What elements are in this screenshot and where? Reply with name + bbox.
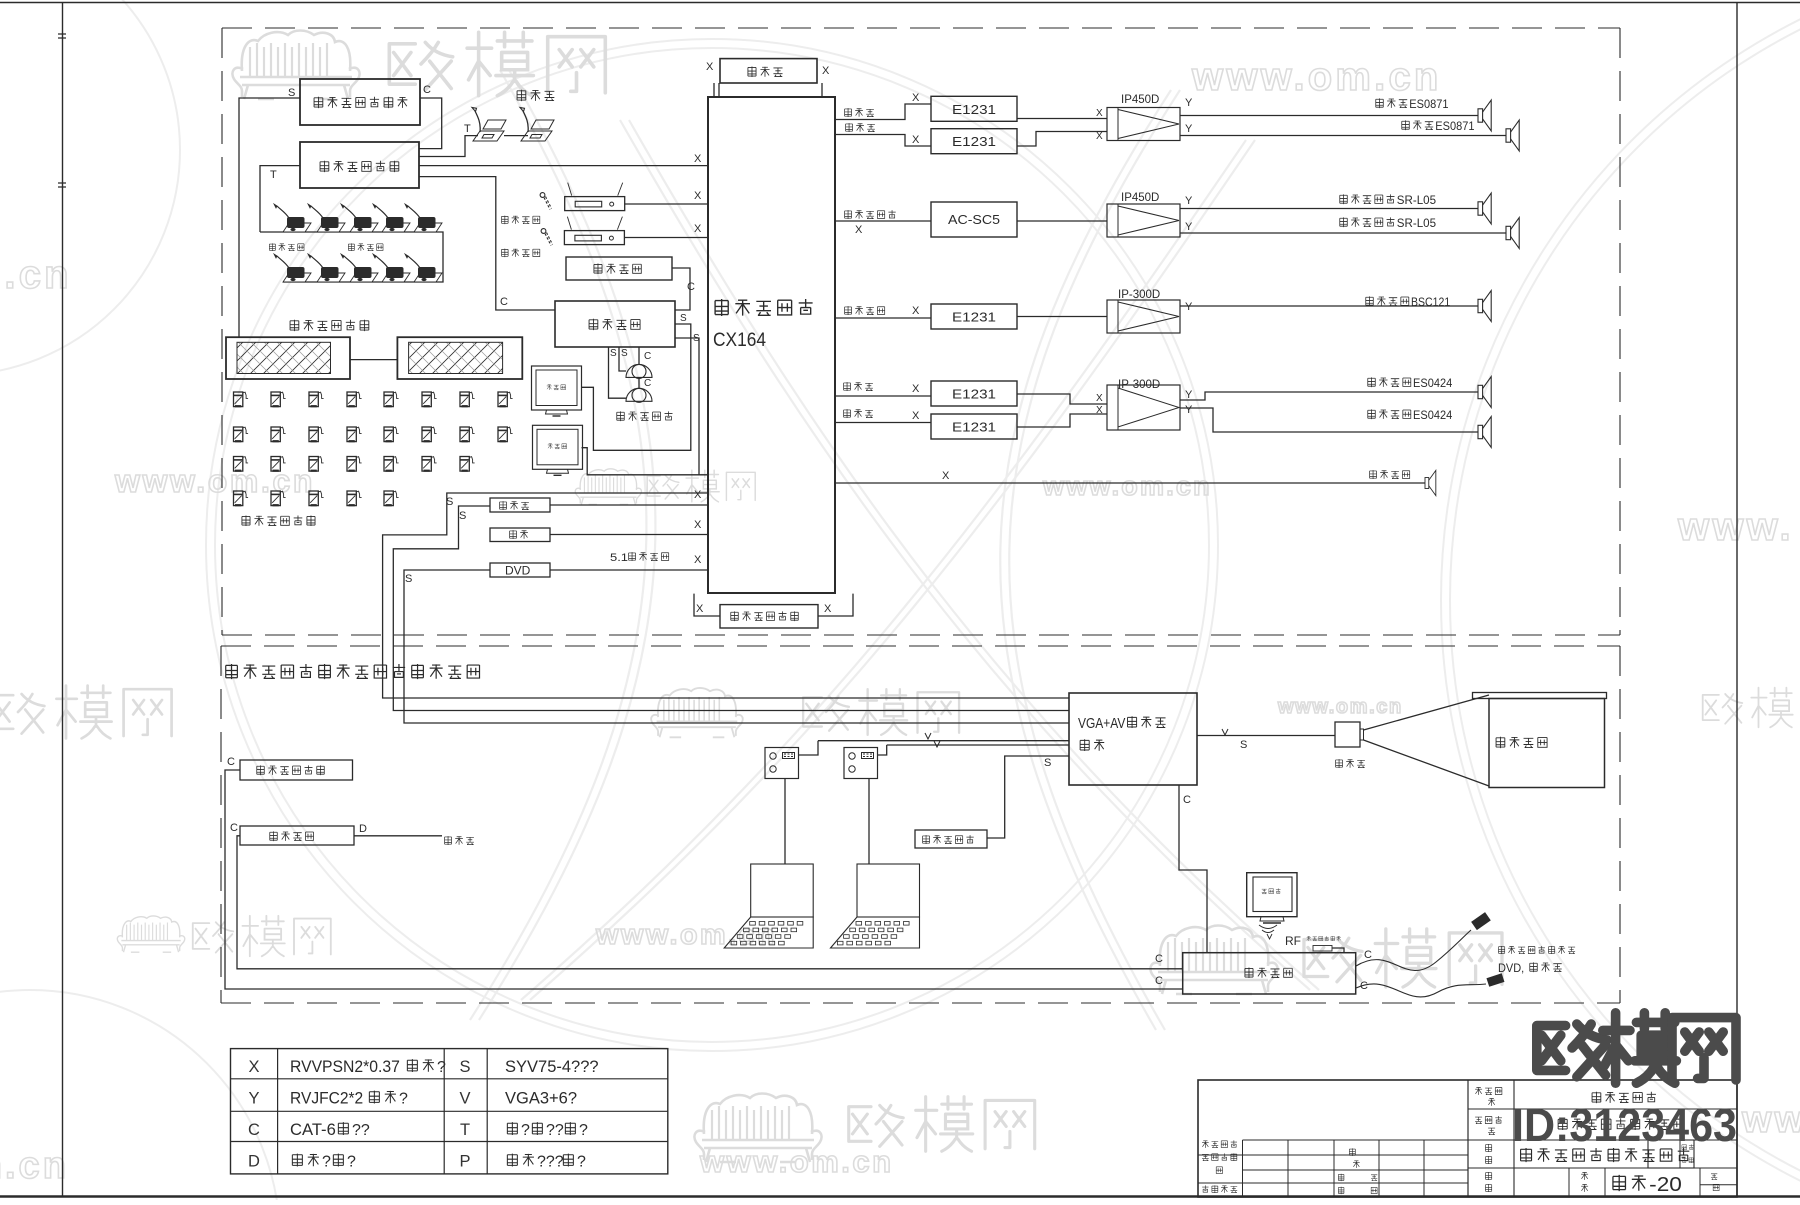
svg-text:www.: www. — [1677, 505, 1794, 549]
svg-text:ES0871: ES0871 — [1435, 119, 1474, 133]
svg-text:E1231: E1231 — [952, 387, 996, 402]
svg-text:IP450D: IP450D — [1121, 94, 1159, 106]
svg-text:X: X — [694, 223, 702, 235]
svg-text:C: C — [644, 378, 651, 389]
svg-text:AC-SC5: AC-SC5 — [948, 212, 1000, 227]
svg-text:X: X — [912, 92, 920, 104]
svg-text:S: S — [1240, 739, 1247, 751]
svg-text:5.1: 5.1 — [610, 552, 628, 564]
svg-text:Y: Y — [248, 1090, 259, 1108]
svg-text:ES0871: ES0871 — [1409, 97, 1448, 111]
svg-text:X: X — [1096, 405, 1103, 416]
svg-text:C: C — [227, 756, 235, 768]
svg-text:ID:3123463: ID:3123463 — [1512, 1099, 1737, 1151]
svg-text:X: X — [694, 554, 702, 566]
svg-text:S: S — [288, 87, 295, 99]
svg-text:?: ? — [521, 1122, 530, 1139]
svg-text:om.cn: om.cn — [0, 253, 72, 297]
svg-text:C: C — [1364, 949, 1372, 961]
svg-text:C: C — [687, 281, 695, 293]
svg-text:C: C — [1360, 980, 1368, 992]
svg-text:CAT-6: CAT-6 — [290, 1120, 336, 1139]
svg-text:D: D — [359, 823, 367, 835]
svg-text:Y: Y — [1185, 221, 1193, 233]
svg-text:Y: Y — [1185, 404, 1193, 416]
svg-text:C: C — [248, 1121, 260, 1139]
svg-text:www.om.cn: www.om.cn — [1042, 471, 1212, 501]
svg-text:IP-300D: IP-300D — [1118, 379, 1160, 391]
svg-text:T: T — [464, 123, 471, 135]
svg-text:X: X — [706, 61, 714, 73]
svg-text:RVJFC2*2: RVJFC2*2 — [290, 1089, 363, 1108]
svg-text:DVD: DVD — [505, 564, 531, 578]
svg-text:SR-L05: SR-L05 — [1397, 216, 1437, 230]
svg-text:S: S — [459, 510, 466, 522]
svg-text:X: X — [696, 603, 704, 615]
svg-text:Y: Y — [1185, 301, 1193, 313]
svg-text:E1231: E1231 — [952, 310, 996, 325]
svg-text:www.om.cn: www.om.cn — [114, 463, 315, 499]
svg-text:om.cn: om.cn — [0, 1145, 69, 1187]
svg-text:?: ? — [347, 1154, 356, 1171]
svg-text:X: X — [912, 134, 920, 146]
svg-text:S: S — [610, 348, 617, 359]
svg-text:???: ??? — [537, 1154, 564, 1171]
svg-text:X: X — [694, 489, 702, 501]
svg-text:IP450D: IP450D — [1121, 192, 1159, 204]
svg-text:ES0424: ES0424 — [1413, 408, 1452, 422]
svg-text:X: X — [694, 190, 702, 202]
svg-text:C: C — [230, 822, 238, 834]
svg-text:S: S — [621, 348, 628, 359]
svg-text:?: ? — [399, 1091, 408, 1108]
svg-text:www.om.cn: www.om.cn — [699, 1144, 894, 1179]
svg-text:SYV75-4???: SYV75-4??? — [505, 1058, 599, 1076]
svg-text:S: S — [405, 573, 412, 585]
svg-text:CX164: CX164 — [713, 330, 766, 351]
svg-text:S: S — [459, 1058, 470, 1076]
svg-text:RVVPSN2*0.37: RVVPSN2*0.37 — [290, 1057, 400, 1076]
svg-text:E1231: E1231 — [952, 102, 996, 117]
svg-text:X: X — [1096, 131, 1103, 142]
svg-text:www.om.cn: www.om.cn — [1277, 696, 1403, 718]
svg-text:X: X — [694, 153, 702, 165]
svg-text:www.om.cn: www.om.cn — [1191, 55, 1442, 99]
svg-text:RF: RF — [1285, 934, 1301, 948]
svg-text:D: D — [248, 1153, 260, 1171]
svg-text:Y: Y — [1185, 97, 1193, 109]
svg-text:X: X — [1096, 393, 1103, 404]
svg-text:?: ? — [322, 1154, 331, 1171]
svg-text:VGA+AV: VGA+AV — [1078, 716, 1126, 732]
svg-text:??: ?? — [546, 1122, 564, 1139]
svg-text:P: P — [459, 1153, 470, 1171]
svg-text:Y: Y — [1185, 195, 1193, 207]
svg-text:E1231: E1231 — [952, 420, 996, 435]
svg-text:X: X — [1096, 108, 1103, 119]
svg-text:Y: Y — [1185, 389, 1193, 401]
svg-text:??: ?? — [352, 1122, 370, 1139]
svg-text:X: X — [694, 519, 702, 531]
svg-text:C: C — [1155, 953, 1163, 965]
svg-text:BSC121: BSC121 — [1411, 295, 1450, 309]
svg-text:V: V — [459, 1090, 470, 1108]
svg-text:X: X — [912, 410, 920, 422]
svg-text:-20: -20 — [1649, 1174, 1682, 1196]
svg-text:C: C — [644, 351, 651, 362]
svg-text:Y: Y — [1185, 123, 1193, 135]
svg-text:C: C — [423, 84, 431, 96]
svg-text:X: X — [248, 1058, 259, 1076]
svg-text:C: C — [1183, 794, 1191, 806]
svg-text:VGA3+6?: VGA3+6? — [505, 1090, 577, 1108]
svg-text:SR-L05: SR-L05 — [1397, 193, 1437, 207]
svg-text:?: ? — [437, 1059, 446, 1076]
svg-text:X: X — [942, 470, 950, 482]
svg-text:X: X — [824, 603, 832, 615]
svg-text:C: C — [500, 296, 508, 308]
svg-text:T: T — [460, 1121, 470, 1139]
svg-text:www.: www. — [1741, 1099, 1800, 1141]
svg-text:DVD,: DVD, — [1498, 961, 1524, 975]
svg-text:ES0424: ES0424 — [1413, 376, 1452, 390]
svg-text:X: X — [912, 305, 920, 317]
svg-text:X: X — [912, 383, 920, 395]
svg-text:E1231: E1231 — [952, 134, 996, 149]
svg-text:T: T — [270, 169, 277, 181]
svg-text:?: ? — [579, 1122, 588, 1139]
svg-text:?: ? — [577, 1154, 586, 1171]
svg-text:C: C — [1155, 975, 1163, 987]
svg-text:X: X — [855, 224, 863, 236]
svg-text:S: S — [446, 496, 453, 508]
svg-text:S: S — [680, 313, 687, 324]
svg-text:IP-300D: IP-300D — [1118, 289, 1160, 301]
svg-text:X: X — [822, 65, 830, 77]
svg-text:S: S — [1044, 757, 1051, 769]
